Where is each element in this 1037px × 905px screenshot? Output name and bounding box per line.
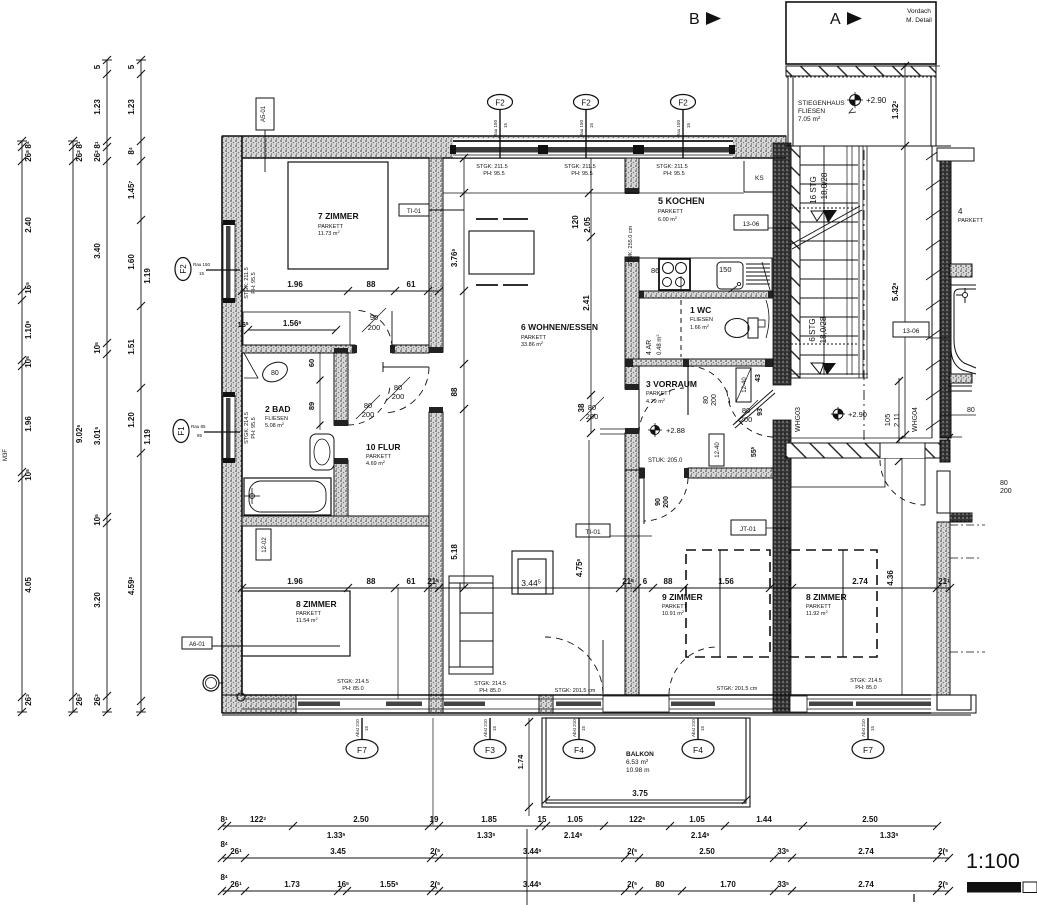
- dark party wall apartment/stairwell: [773, 143, 791, 713]
- svg-text:STGK: 201.5 cm: STGK: 201.5 cm: [555, 688, 596, 694]
- svg-text:M. Detail: M. Detail: [906, 17, 932, 24]
- room8R dashed bed: [790, 550, 877, 657]
- svg-text:1.44: 1.44: [756, 815, 772, 824]
- svg-text:STGK: 211.5: STGK: 211.5: [244, 267, 250, 298]
- svg-text:12-40: 12-40: [715, 442, 721, 458]
- stair bottom exterior hatched wall: [786, 443, 950, 458]
- door room7->flur swing: [355, 310, 392, 348]
- door jamb blocks: [334, 188, 773, 478]
- balkon label: [626, 751, 654, 774]
- svg-text:6 STG: 6 STG: [808, 318, 817, 341]
- svg-text:80: 80: [703, 396, 710, 404]
- svg-text:18,0/28: 18,0/28: [819, 316, 828, 343]
- stair top edge line: [786, 145, 951, 147]
- svg-text:4 AR: 4 AR: [646, 340, 653, 355]
- svg-text:1.74: 1.74: [516, 754, 525, 769]
- interior wall flur/living (vertical): [429, 158, 443, 352]
- svg-text:2.41: 2.41: [582, 295, 591, 311]
- wall living/kitchen-vorraum (vertical): [625, 158, 639, 193]
- room9 dashed bed: [686, 550, 770, 657]
- svg-text:2 BAD: 2 BAD: [265, 404, 291, 414]
- svg-text:15: 15: [538, 815, 547, 824]
- room 9 label: [662, 592, 703, 617]
- window sill labels bottom: [337, 678, 882, 694]
- stairwell landing walls: [788, 64, 936, 146]
- room8R right wall: [937, 522, 950, 710]
- svg-text:2.40: 2.40: [24, 217, 33, 233]
- balcony dims: [528, 718, 530, 816]
- svg-text:80: 80: [967, 407, 975, 414]
- svg-text:Rau 150: Rau 150: [579, 119, 584, 137]
- svg-text:TI-01: TI-01: [585, 529, 601, 536]
- svg-text:11.73 m2: 11.73 m2: [318, 229, 340, 237]
- svg-text:2.74: 2.74: [858, 847, 874, 856]
- svg-text:1.23: 1.23: [93, 99, 102, 115]
- wall above bad (horiz): [242, 345, 355, 353]
- stairwell left hatched wall: [786, 66, 974, 710]
- svg-text:F3: F3: [485, 745, 495, 755]
- svg-text:STGK: 211.5: STGK: 211.5: [476, 164, 507, 170]
- svg-text:FLIESEN: FLIESEN: [265, 416, 288, 422]
- marker F2 top x500: [488, 95, 513, 110]
- svg-text:60: 60: [307, 359, 316, 367]
- vordach box: [786, 2, 936, 64]
- svg-text:11.54 m2: 11.54 m2: [296, 616, 318, 624]
- outer wall emphasis lines: [222, 136, 931, 713]
- svg-text:1.70: 1.70: [720, 880, 736, 889]
- left wall windows: [223, 220, 235, 463]
- room8R wardrobe: [791, 458, 885, 487]
- svg-text:A5-01: A5-01: [261, 105, 267, 122]
- label box TI-01 (room7): [399, 204, 429, 216]
- svg-text:3 VORRAUM: 3 VORRAUM: [646, 379, 697, 389]
- room 1 wc label: [690, 305, 713, 331]
- label box 13-06 stair: [893, 322, 929, 337]
- bad corner shower line: [244, 353, 258, 378]
- svg-text:89: 89: [307, 402, 316, 410]
- living dining table: [469, 231, 534, 274]
- svg-text:120: 120: [571, 215, 580, 229]
- balcony door swing living: [545, 637, 603, 694]
- svg-text:1.19: 1.19: [143, 268, 152, 284]
- dark pillar in bottom wall: [773, 695, 790, 713]
- svg-text:3.75: 3.75: [632, 789, 648, 798]
- dim 5.42: [904, 146, 906, 438]
- room 8L label: [296, 599, 337, 624]
- svg-text:3.20: 3.20: [93, 592, 102, 608]
- svg-text:13-06: 13-06: [743, 221, 760, 228]
- svg-text:Rau 85: Rau 85: [191, 424, 206, 429]
- svg-text:PARKETT: PARKETT: [296, 611, 322, 617]
- svg-text:105: 105: [883, 414, 892, 427]
- wc corner line: [766, 300, 769, 338]
- wall wc/vorraum (horiz): [625, 359, 773, 366]
- left dim chain L2: [72, 141, 74, 712]
- label box A6-01: [182, 637, 212, 649]
- wc toilet: [725, 319, 749, 338]
- door vorraum->room9: [644, 478, 688, 521]
- svg-text:PH: 95.5: PH: 95.5: [483, 171, 504, 177]
- svg-text:9 ZIMMER: 9 ZIMMER: [662, 592, 703, 602]
- svg-text:BALKON: BALKON: [626, 751, 654, 758]
- label box JT-01 room9: [731, 520, 766, 535]
- svg-text:15: 15: [686, 122, 691, 128]
- right protrusions: [950, 264, 972, 277]
- label box 12-40 vorraum a: [736, 368, 751, 402]
- svg-text:F7: F7: [357, 745, 367, 755]
- room 8R label: [806, 592, 847, 617]
- svg-text:15: 15: [492, 725, 497, 731]
- svg-text:FLIESEN: FLIESEN: [690, 317, 713, 323]
- svg-text:PH: 95.5: PH: 95.5: [251, 417, 257, 438]
- left dim chain L4: [140, 60, 142, 712]
- room 6 living label: [521, 322, 598, 348]
- svg-text:1.23: 1.23: [127, 99, 136, 115]
- svg-text:PARKETT: PARKETT: [366, 454, 392, 460]
- svg-text:PH: 95.5: PH: 95.5: [663, 171, 684, 177]
- svg-text:F2: F2: [581, 99, 591, 108]
- marker F3 bottom x490: [489, 718, 491, 740]
- svg-text:200: 200: [711, 394, 718, 406]
- marker F7 bottom x362: [361, 718, 363, 740]
- marker F2 left: [175, 258, 191, 281]
- level marker +2.90 stair: [847, 92, 887, 113]
- svg-text:15: 15: [503, 122, 508, 128]
- svg-text:F1: F1: [177, 426, 186, 436]
- svg-text:Rau 150: Rau 150: [676, 119, 681, 137]
- svg-text:A: A: [830, 11, 841, 28]
- svg-text:93: 93: [757, 408, 764, 416]
- svg-text:STGK: 214.5: STGK: 214.5: [850, 678, 882, 684]
- svg-text:1.56: 1.56: [718, 577, 734, 586]
- window sill labels top: [476, 164, 687, 177]
- stair railing: [791, 146, 868, 378]
- svg-text:F2: F2: [678, 99, 688, 108]
- svg-text:2.74: 2.74: [858, 880, 874, 889]
- svg-text:1.05: 1.05: [567, 815, 583, 824]
- svg-text:PARKETT: PARKETT: [806, 604, 832, 610]
- svg-text:FLIESEN: FLIESEN: [798, 108, 825, 115]
- shaft box: [512, 551, 553, 594]
- svg-text:+2.90: +2.90: [866, 96, 887, 105]
- svg-text:PARKETT: PARKETT: [658, 209, 684, 215]
- stair flight separation lines: [846, 146, 848, 375]
- svg-text:15: 15: [364, 725, 369, 731]
- room7 closet strip: [243, 312, 350, 345]
- svg-text:1.73: 1.73: [284, 880, 300, 889]
- kitchen stove: [659, 259, 690, 290]
- door living->vorraum: [639, 388, 684, 433]
- svg-text:15: 15: [199, 271, 205, 276]
- svg-text:10.91 m2: 10.91 m2: [662, 609, 685, 617]
- stair section diagonal: [790, 206, 860, 245]
- svg-text:1.19: 1.19: [143, 429, 152, 445]
- svg-text:STGK: 211.5: STGK: 211.5: [656, 164, 687, 170]
- svg-text:STGK: 214.5: STGK: 214.5: [337, 679, 369, 685]
- svg-text:A6-01: A6-01: [189, 642, 206, 648]
- svg-text:F4: F4: [574, 745, 584, 755]
- label box 13-06 kitchen: [734, 215, 768, 230]
- wall below bad (horiz): [242, 516, 429, 526]
- outer left wall: [222, 136, 242, 713]
- marker B section arrow: [689, 11, 721, 28]
- svg-text:PARKETT: PARKETT: [958, 218, 984, 224]
- svg-text:7.05 m2: 7.05 m2: [798, 115, 821, 123]
- svg-text:STUK: 205.0: STUK: 205.0: [648, 458, 683, 464]
- svg-text:7 ZIMMER: 7 ZIMMER: [318, 211, 359, 221]
- svg-text:5.18: 5.18: [450, 544, 459, 560]
- svg-text:PARKETT: PARKETT: [646, 391, 672, 397]
- room 3 vorraum label: [646, 379, 697, 405]
- marker A section arrow: [830, 11, 862, 28]
- level marker vorraum: [651, 426, 660, 435]
- door room8R from landing: [880, 443, 925, 458]
- svg-text:JT-01: JT-01: [740, 526, 757, 533]
- staircase treads: [800, 146, 858, 375]
- svg-text:Abst 210: Abst 210: [355, 719, 360, 737]
- top windows: [443, 139, 786, 159]
- svg-text:+2.90: +2.90: [848, 410, 867, 419]
- bad washbasin top: [259, 358, 290, 385]
- svg-text:8 ZIMMER: 8 ZIMMER: [296, 599, 337, 609]
- label box 12-40 vorraum b: [709, 434, 724, 466]
- svg-text:Vordach: Vordach: [907, 8, 931, 15]
- svg-text:WHG03: WHG03: [795, 407, 802, 432]
- svg-text:86: 86: [651, 266, 659, 275]
- svg-text:200: 200: [1000, 488, 1012, 495]
- svg-text:88: 88: [664, 577, 673, 586]
- svg-text:F2: F2: [179, 264, 188, 274]
- svg-text:F7: F7: [863, 745, 873, 755]
- entrance door: [727, 390, 773, 437]
- svg-text:Abst 210: Abst 210: [861, 719, 866, 737]
- living couch: [449, 576, 493, 674]
- svg-text:STIEGENHAUS: STIEGENHAUS: [798, 100, 845, 107]
- svg-text:80: 80: [588, 403, 596, 412]
- svg-text:WHG04: WHG04: [912, 407, 919, 432]
- svg-text:TI-01: TI-01: [407, 209, 422, 215]
- svg-text:1.05: 1.05: [689, 815, 705, 824]
- svg-text:90: 90: [655, 498, 662, 506]
- svg-text:2.50: 2.50: [699, 847, 715, 856]
- dim 1.32: [904, 63, 906, 146]
- svg-text:80: 80: [656, 880, 665, 889]
- svg-text:2.74: 2.74: [852, 577, 868, 586]
- svg-text:10.98 m: 10.98 m: [626, 767, 650, 774]
- svg-text:Rau 150: Rau 150: [193, 262, 211, 267]
- main dim line y588: [242, 587, 950, 589]
- svg-text:80: 80: [364, 401, 372, 410]
- stair direction arrows: [811, 211, 824, 221]
- svg-text:4: 4: [958, 207, 963, 216]
- svg-text:3.40: 3.40: [93, 243, 102, 259]
- svg-text:PH: 95.5: PH: 95.5: [251, 272, 257, 293]
- svg-text:88: 88: [450, 387, 459, 396]
- marker F2 top x683: [671, 95, 696, 110]
- svg-text:88: 88: [367, 280, 376, 289]
- room 5 kitchen label: [658, 196, 705, 223]
- left rain pipe circle: [203, 675, 219, 691]
- svg-text:85: 85: [197, 433, 203, 438]
- bottom windows: [242, 696, 931, 712]
- svg-text:5: 5: [93, 64, 102, 69]
- bad washbasin right: [310, 434, 334, 470]
- svg-text:+2.88: +2.88: [666, 426, 685, 435]
- marker F4 bottom x698: [697, 718, 699, 740]
- svg-text:0.48 m2: 0.48 m2: [655, 334, 663, 355]
- marker F7 bottom x868: [867, 718, 869, 740]
- svg-text:6 WOHNEN/ESSEN: 6 WOHNEN/ESSEN: [521, 322, 598, 332]
- bottom wall outer face line: [222, 714, 971, 716]
- marker F1 left: [173, 420, 189, 443]
- svg-text:15: 15: [589, 122, 594, 128]
- svg-text:Abst 210: Abst 210: [691, 719, 696, 737]
- svg-text:15: 15: [700, 725, 705, 731]
- svg-text:4.36: 4.36: [886, 570, 895, 586]
- balcony: [542, 718, 750, 807]
- balcony door swing room9: [669, 647, 716, 694]
- outer top wall: [222, 136, 976, 713]
- svg-text:12-02: 12-02: [262, 537, 268, 553]
- svg-text:2.05: 2.05: [583, 217, 592, 233]
- svg-text:PH: 85.0: PH: 85.0: [855, 685, 876, 691]
- wall kitchen/wc (horiz): [639, 291, 773, 298]
- svg-text:2.11: 2.11: [892, 413, 901, 427]
- svg-text:PH: 85.0: PH: 85.0: [479, 688, 500, 694]
- svg-text:38: 38: [577, 403, 586, 412]
- svg-text:2.50: 2.50: [862, 815, 878, 824]
- marker F4 bottom x579: [578, 718, 580, 740]
- interior wall bad/flur: [334, 352, 348, 425]
- svg-text:4.05: 4.05: [24, 577, 33, 593]
- bottom dim chain row C: [222, 890, 949, 892]
- marker F2 top x586: [574, 95, 599, 110]
- svg-text:15: 15: [581, 725, 586, 731]
- svg-text:1.96: 1.96: [287, 280, 303, 289]
- svg-text:3.45: 3.45: [330, 847, 346, 856]
- svg-text:1.60: 1.60: [127, 254, 136, 270]
- svg-text:1.96: 1.96: [287, 577, 303, 586]
- outer bottom wall band: [222, 695, 976, 713]
- svg-text:19: 19: [430, 815, 439, 824]
- svg-text:PARKETT: PARKETT: [318, 224, 344, 230]
- svg-text:1 WC: 1 WC: [690, 305, 711, 315]
- svg-text:KS: KS: [755, 175, 764, 182]
- svg-text:Abst 210: Abst 210: [572, 719, 577, 737]
- section dash line in well: [863, 150, 865, 440]
- door bad swing: [348, 384, 390, 425]
- svg-text:80: 80: [394, 383, 402, 392]
- svg-text:Abst 210: Abst 210: [483, 719, 488, 737]
- bottom dim chain row A: [222, 825, 937, 827]
- room 2 bad label: [265, 404, 291, 429]
- svg-text:150: 150: [719, 265, 732, 274]
- svg-text:12-40: 12-40: [742, 377, 748, 393]
- dim line room7 bottom: [242, 290, 439, 292]
- svg-text:F4: F4: [693, 745, 703, 755]
- svg-text:10 FLUR: 10 FLUR: [366, 442, 400, 452]
- svg-text:43: 43: [755, 374, 762, 382]
- svg-text:F2: F2: [495, 99, 505, 108]
- svg-text:13-06: 13-06: [903, 328, 920, 335]
- kitchen counter: [639, 258, 772, 291]
- label box A5-01: [256, 98, 274, 130]
- svg-text:6.53 m2: 6.53 m2: [626, 758, 649, 766]
- svg-text:Rau 150: Rau 150: [493, 119, 498, 137]
- svg-text:16 STG: 16 STG: [809, 176, 818, 204]
- left dim chain L3: [106, 60, 108, 712]
- svg-text:2.50: 2.50: [353, 815, 369, 824]
- bottom dim chain row B: [222, 857, 949, 859]
- svg-text:18,0/28: 18,0/28: [820, 172, 829, 199]
- svg-text:STUK: 255.0 cm: STUK: 255.0 cm: [628, 225, 634, 266]
- vordach hatch strip: [786, 66, 936, 76]
- bad bathtub: [244, 478, 331, 515]
- room 7 label: [318, 211, 359, 237]
- room 10 flur label: [366, 442, 400, 467]
- svg-text:80: 80: [1000, 480, 1008, 487]
- svg-text:80: 80: [742, 406, 750, 415]
- dim 120/205/241 vertical: [590, 158, 592, 433]
- svg-text:5 KOCHEN: 5 KOCHEN: [658, 196, 705, 206]
- svg-text:B: B: [689, 11, 700, 28]
- label box 12-02 room8L: [256, 529, 271, 560]
- room8L bed: [242, 591, 350, 656]
- svg-text:61: 61: [407, 280, 416, 289]
- svg-text:STGK: 201.5 cm: STGK: 201.5 cm: [717, 686, 758, 692]
- door vorraum->wc: [688, 366, 730, 407]
- svg-text:1.85: 1.85: [481, 815, 497, 824]
- dim closet 156: [248, 329, 336, 331]
- stairwell right wall: [940, 150, 951, 438]
- AR dashed divider: [680, 300, 682, 357]
- svg-text:33.86 m2: 33.86 m2: [521, 340, 544, 348]
- bottom-right corner block: [937, 695, 971, 710]
- svg-text:1:100: 1:100: [966, 849, 1020, 873]
- svg-text:80: 80: [271, 370, 279, 377]
- stair cut dotted lines: [791, 207, 858, 209]
- svg-text:1.51: 1.51: [127, 339, 136, 355]
- svg-text:61: 61: [407, 577, 416, 586]
- svg-text:88: 88: [367, 577, 376, 586]
- svg-text:5: 5: [127, 64, 136, 69]
- svg-text:200: 200: [663, 496, 670, 508]
- wall vorraum/room9 (horiz): [639, 468, 644, 478]
- kitchen sink: [717, 262, 743, 289]
- svg-text:STGK: 214.5: STGK: 214.5: [244, 412, 250, 444]
- label box TI-01 living: [576, 524, 610, 537]
- svg-text:M3F: M3F: [3, 449, 9, 461]
- room7 bed: [288, 162, 388, 269]
- dim 3.76/5.18 vertical: [463, 158, 465, 588]
- left dim chain L1: [21, 141, 23, 712]
- right neighbour bathtub: [951, 285, 976, 374]
- svg-text:1.96: 1.96: [24, 416, 33, 432]
- svg-text:11.92 m2: 11.92 m2: [806, 609, 828, 617]
- svg-text:15: 15: [870, 725, 875, 731]
- door flur->living swing: [383, 366, 429, 368]
- KS fridge niche: [743, 161, 745, 192]
- svg-text:STGK: 214.5: STGK: 214.5: [474, 681, 506, 687]
- svg-text:6: 6: [643, 577, 648, 586]
- svg-text:8 ZIMMER: 8 ZIMMER: [806, 592, 847, 602]
- svg-text:PH: 85.0: PH: 85.0: [342, 686, 363, 692]
- svg-text:1.20: 1.20: [127, 412, 136, 428]
- svg-text:PH: 95.5: PH: 95.5: [571, 171, 592, 177]
